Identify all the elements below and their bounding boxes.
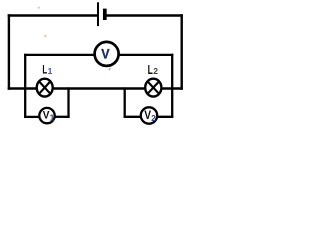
lamp L2 cross xyxy=(147,81,159,94)
svg-text:2: 2 xyxy=(151,114,156,123)
wire right outer vertical xyxy=(180,14,182,89)
wire V1 loop bottom right xyxy=(55,116,70,118)
wire V2 loop bottom left xyxy=(124,116,141,118)
wire V2 loop left vertical xyxy=(124,87,126,118)
svg-text:L: L xyxy=(148,63,153,77)
voltmeter V2 circle xyxy=(141,107,157,123)
wire middle lamp row xyxy=(8,87,183,89)
wire right inner vertical shared by V loop and V2 loop xyxy=(171,54,173,118)
wire V2 loop bottom right xyxy=(157,116,173,118)
wire left inner vertical shared by V loop and V1 loop xyxy=(24,54,26,118)
speck orange dot xyxy=(44,35,46,37)
wire voltmeter-V loop top left segment xyxy=(24,54,95,56)
wire V1 loop right vertical xyxy=(67,87,69,118)
svg-text:1: 1 xyxy=(50,114,55,123)
lamp L1 circle xyxy=(37,79,53,97)
voltmeter U1 (V) circle xyxy=(95,42,119,66)
lamp L2 circle xyxy=(145,79,161,97)
voltmeter V1 circle xyxy=(39,108,54,123)
speck gray dot top xyxy=(38,7,40,9)
wire left outer vertical xyxy=(8,14,10,89)
wire top-right from battery to outer corner xyxy=(106,14,183,16)
svg-text:1: 1 xyxy=(48,66,53,76)
speck blue mark below V meter xyxy=(109,68,110,70)
lamp L1 cross xyxy=(39,81,51,94)
wire voltmeter-V loop top right segment xyxy=(119,54,174,56)
svg-text:2: 2 xyxy=(153,66,158,76)
svg-text:V: V xyxy=(101,46,110,61)
wire top-left from outer corner to battery xyxy=(8,14,97,16)
wire V1 loop bottom left xyxy=(24,116,40,118)
battery B1 short thick (negative) plate xyxy=(103,9,107,20)
battery B1 long (positive) plate xyxy=(97,2,99,26)
svg-text:V: V xyxy=(144,109,151,122)
